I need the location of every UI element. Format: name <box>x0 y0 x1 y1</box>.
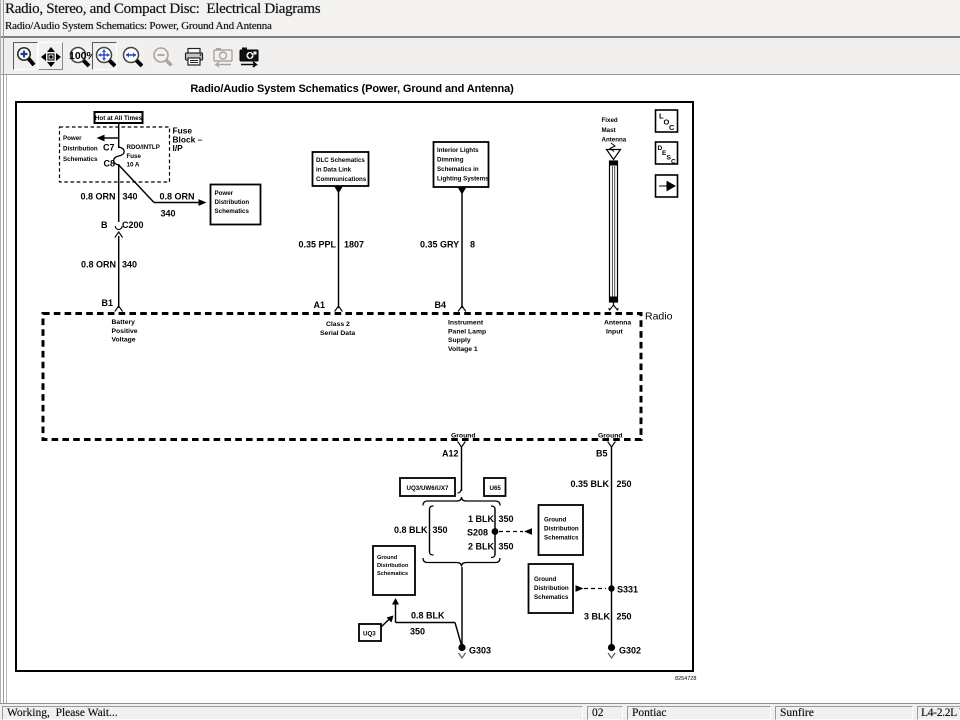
svg-text:B: B <box>101 220 108 230</box>
svg-text:Power: Power <box>63 135 82 142</box>
svg-text:Battery: Battery <box>112 319 136 326</box>
svg-text:S208: S208 <box>467 528 488 538</box>
svg-text:Fixed: Fixed <box>602 117 618 124</box>
svg-text:Serial Data: Serial Data <box>320 330 355 337</box>
svg-text:1807: 1807 <box>344 240 364 250</box>
svg-text:I/P: I/P <box>173 143 184 153</box>
svg-text:0.8 ORN: 0.8 ORN <box>81 260 116 270</box>
svg-text:Radio: Radio <box>645 311 673 323</box>
svg-text:Schematics: Schematics <box>377 571 408 577</box>
svg-text:B5: B5 <box>596 449 608 459</box>
svg-text:B4: B4 <box>434 300 446 310</box>
svg-text:UQ3: UQ3 <box>363 631 376 638</box>
svg-text:in Data Link: in Data Link <box>316 167 352 174</box>
svg-text:Dimming: Dimming <box>437 157 464 164</box>
svg-text:Distribution: Distribution <box>377 563 409 569</box>
svg-text:8254728: 8254728 <box>675 676 696 682</box>
svg-text:A12: A12 <box>442 449 459 459</box>
svg-text:340: 340 <box>161 209 176 219</box>
svg-text:Radio/Audio System Schematics: Radio/Audio System Schematics (Power, Gr… <box>190 83 514 95</box>
svg-text:Lighting Systems: Lighting Systems <box>437 176 489 183</box>
svg-text:Power: Power <box>215 190 234 197</box>
svg-text:Schematics in: Schematics in <box>437 166 479 173</box>
svg-text:350: 350 <box>433 525 448 535</box>
svg-text:350: 350 <box>499 542 514 552</box>
svg-text:Distribution: Distribution <box>544 526 579 533</box>
svg-text:Ground: Ground <box>534 576 557 583</box>
svg-text:Supply: Supply <box>448 337 471 344</box>
svg-text:Distribution: Distribution <box>534 585 569 592</box>
svg-text:Voltage 1: Voltage 1 <box>448 346 478 353</box>
svg-text:A1: A1 <box>313 300 325 310</box>
svg-text:UQ3/UW6/UX7: UQ3/UW6/UX7 <box>407 485 450 492</box>
svg-text:C: C <box>671 159 676 166</box>
svg-text:Instrument: Instrument <box>448 320 484 327</box>
svg-text:2 BLK: 2 BLK <box>468 542 495 552</box>
svg-text:Input: Input <box>606 328 623 335</box>
svg-text:3 BLK: 3 BLK <box>584 612 611 622</box>
svg-text:340: 340 <box>122 260 137 270</box>
svg-text:350: 350 <box>410 627 425 637</box>
svg-text:DLC Schematics: DLC Schematics <box>316 157 365 164</box>
svg-text:U65: U65 <box>490 485 502 492</box>
svg-text:Antenna: Antenna <box>602 137 627 144</box>
svg-text:Distribution: Distribution <box>215 199 250 206</box>
svg-text:C7: C7 <box>103 143 115 153</box>
svg-text:0.35 BLK: 0.35 BLK <box>571 479 610 489</box>
svg-text:Class 2: Class 2 <box>326 321 350 328</box>
svg-text:0.8 BLK: 0.8 BLK <box>411 611 445 621</box>
svg-text:0.8 BLK: 0.8 BLK <box>394 525 428 535</box>
svg-text:10 A: 10 A <box>127 162 140 169</box>
svg-text:Ground: Ground <box>544 517 567 524</box>
svg-text:Schematics: Schematics <box>63 156 98 163</box>
svg-text:G302: G302 <box>619 646 641 656</box>
svg-text:Ground: Ground <box>451 433 476 440</box>
svg-text:Distribution: Distribution <box>63 146 98 153</box>
svg-text:Hot at All Times: Hot at All Times <box>95 115 143 122</box>
svg-text:Fuse: Fuse <box>127 153 142 160</box>
svg-text:RDO/INTLP: RDO/INTLP <box>127 144 160 151</box>
svg-text:Voltage: Voltage <box>112 337 136 344</box>
svg-text:1 BLK: 1 BLK <box>468 514 495 524</box>
svg-text:Ground: Ground <box>598 433 623 440</box>
svg-text:Interior Lights: Interior Lights <box>437 147 479 154</box>
svg-text:Antenna: Antenna <box>604 320 631 327</box>
svg-text:0.8 ORN: 0.8 ORN <box>81 192 116 202</box>
svg-text:250: 250 <box>617 479 632 489</box>
svg-text:Schematics: Schematics <box>215 208 250 215</box>
svg-text:B1: B1 <box>102 298 114 308</box>
svg-text:G303: G303 <box>469 646 491 656</box>
svg-text:Communications: Communications <box>316 176 367 183</box>
svg-text:0.8 ORN: 0.8 ORN <box>160 192 195 202</box>
svg-text:340: 340 <box>123 192 138 202</box>
svg-text:Schematics: Schematics <box>544 535 579 542</box>
svg-text:Positive: Positive <box>112 328 138 335</box>
svg-text:250: 250 <box>617 612 632 622</box>
svg-text:Panel Lamp: Panel Lamp <box>448 328 486 335</box>
svg-text:Schematics: Schematics <box>534 594 569 601</box>
svg-text:S331: S331 <box>617 585 638 595</box>
svg-text:100%: 100% <box>69 50 92 62</box>
svg-text:Ground: Ground <box>377 555 398 561</box>
svg-text:Mast: Mast <box>602 127 616 134</box>
svg-text:8: 8 <box>470 240 475 250</box>
svg-text:0.35 GRY: 0.35 GRY <box>420 240 459 250</box>
svg-text:0.35 PPL: 0.35 PPL <box>299 240 337 250</box>
svg-text:350: 350 <box>499 514 514 524</box>
svg-text:C200: C200 <box>122 220 144 230</box>
svg-text:C: C <box>669 123 675 132</box>
